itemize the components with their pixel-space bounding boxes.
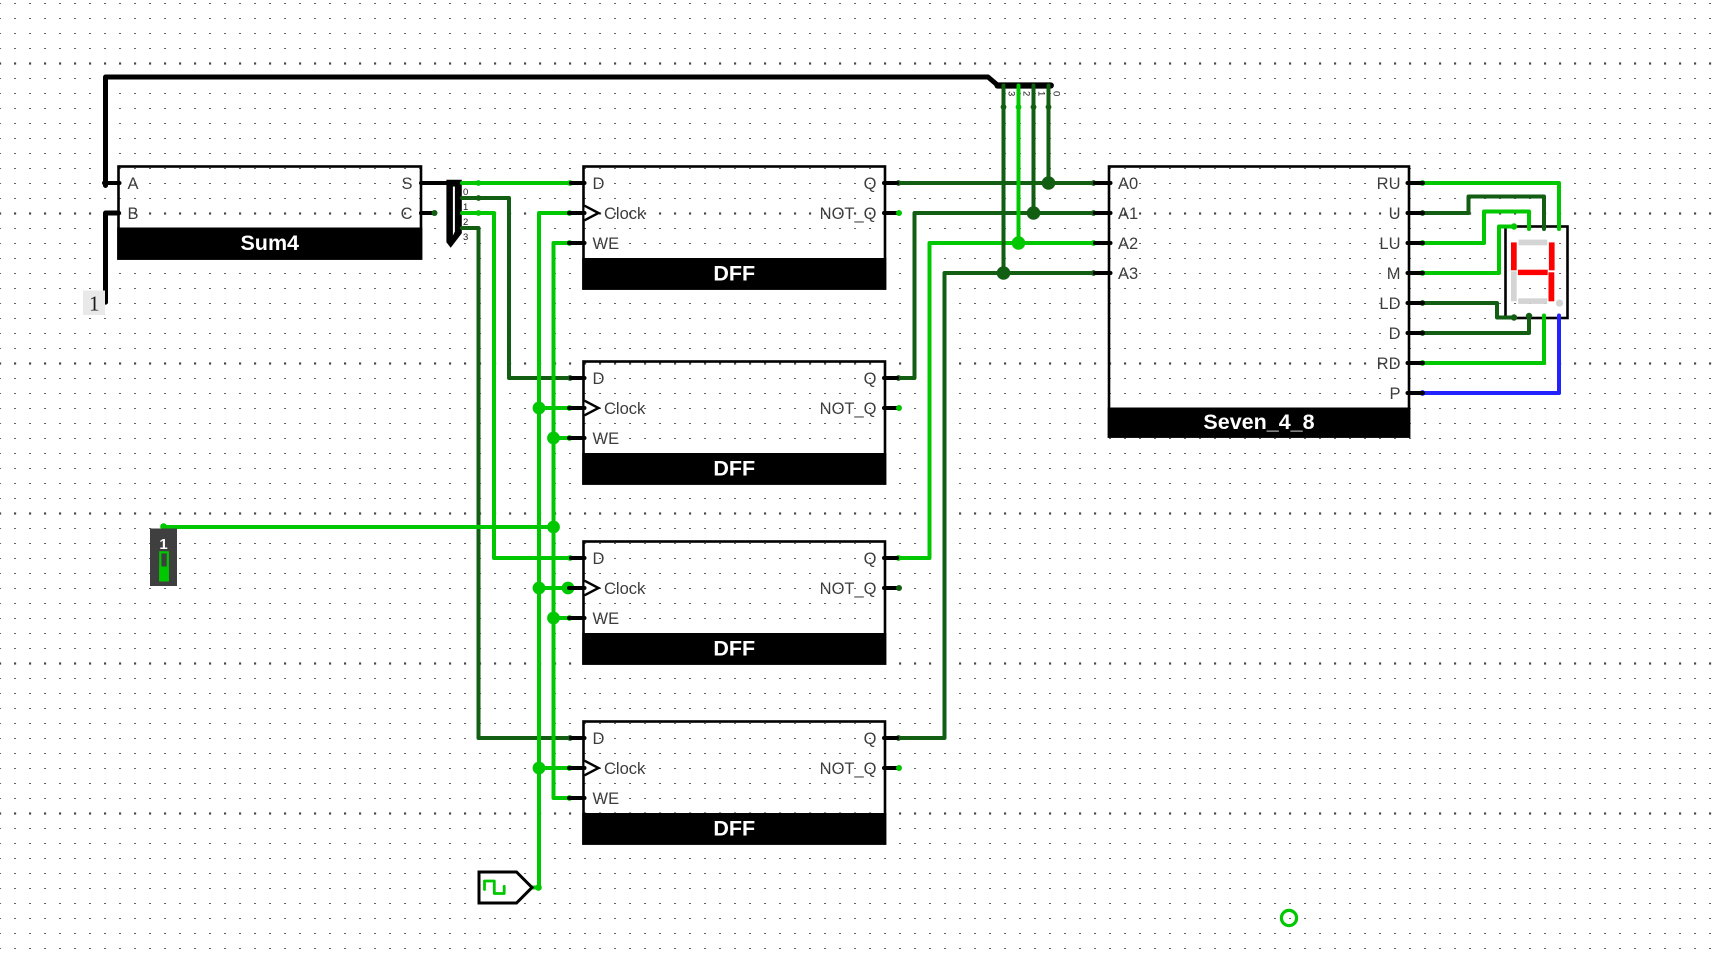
- svg-text:Q: Q: [864, 175, 877, 193]
- svg-text:DFF: DFF: [713, 816, 755, 840]
- wire WE branch DFF3: [554, 616, 570, 620]
- wire DFF3 Q cap: [896, 555, 902, 561]
- svg-text:A3: A3: [1118, 265, 1138, 283]
- wire Seven U to display top pin3: [1423, 197, 1544, 230]
- wire SP1 bit3 to DFF4 D: [462, 228, 571, 738]
- clock source CLK: [479, 872, 532, 903]
- wire DFF2 Q cap: [896, 375, 902, 381]
- bus wire Sum4 S output to splitter SP1: [421, 181, 448, 185]
- junction A1 node: [1027, 206, 1041, 220]
- wire DFF1 WE end cap: [567, 240, 573, 246]
- wire DFF1 Clock end cap: [567, 210, 573, 216]
- wire M cap: [1420, 270, 1426, 276]
- wire U cap: [1420, 210, 1426, 216]
- wire A3 end cap: [1091, 270, 1097, 276]
- pin DFF2 clock triangle: [585, 401, 599, 416]
- wire SP1 bit2 joint cap: [476, 210, 482, 216]
- port stub DFF2 Clock: [569, 406, 585, 410]
- wire DFF2 WE end cap: [567, 435, 573, 441]
- bus wire stub Sum4 A input: [104, 181, 120, 185]
- pin DFF4 clock triangle: [585, 761, 599, 776]
- port stub Seven right y183: [1408, 181, 1424, 185]
- wire DFF2 Clock end cap: [567, 405, 573, 411]
- svg-text:1: 1: [89, 292, 100, 316]
- port stub DFF1 D: [571, 181, 585, 185]
- bus wire A (top feedback bus from splitter to Sum4 A): [106, 77, 999, 186]
- component DFF1: [582, 167, 886, 290]
- node DFF4 NOT_Q cap: [896, 765, 902, 771]
- wire DFF2 Q to Seven A1: [897, 213, 1095, 378]
- svg-text:WE: WE: [593, 235, 620, 253]
- svg-text:Q: Q: [864, 370, 877, 388]
- svg-text:Q: Q: [864, 730, 877, 748]
- wire DFF4 Q to Seven A3: [897, 273, 1095, 738]
- wire clock branch DFF2: [539, 406, 569, 410]
- svg-text:DFF: DFF: [713, 636, 755, 660]
- wire DFF2 D end cap: [567, 375, 573, 381]
- pin DFF1 clock triangle: [585, 206, 599, 221]
- wire Seven P to display bottom pin4: [1423, 316, 1559, 394]
- port stub DFF4 NOT_Q: [884, 766, 897, 770]
- wire SP2 bit0 drop: [1047, 86, 1051, 184]
- component DFF3: [582, 542, 886, 665]
- node DFF1 NOT_Q cap: [896, 210, 902, 216]
- svg-text:D: D: [593, 370, 605, 388]
- wire Seven M to display top pin1: [1423, 227, 1514, 274]
- node Sum4 C unconnected cap: [432, 210, 438, 216]
- svg-text:D: D: [593, 175, 605, 193]
- wire SP2 bit2 drop: [1017, 86, 1021, 244]
- splitter SP2 pin label 3: [1006, 91, 1017, 96]
- wire clock branch DFF3: [539, 586, 569, 590]
- wire LU cap: [1420, 240, 1426, 246]
- wire WE branch DFF2: [554, 436, 570, 440]
- segment DP (decimal point, off): [1556, 300, 1563, 307]
- port stub DFF1 Q: [884, 181, 897, 185]
- port stub DFF4 Q: [884, 736, 897, 740]
- wire DFF3 WE end cap: [567, 615, 573, 621]
- svg-text:A2: A2: [1118, 235, 1138, 253]
- wire DFF3 Q to Seven A2: [897, 243, 1095, 558]
- svg-text:Seven_4_8: Seven_4_8: [1203, 410, 1314, 434]
- splitter SP2 pin label 0: [1051, 91, 1062, 96]
- wire DFF1 Q to Seven A0: [897, 181, 1095, 185]
- svg-text:C: C: [401, 205, 413, 223]
- wire DFF1 Q cap: [896, 180, 902, 186]
- splitter SP1 pin label 0: [463, 187, 468, 198]
- junction A3 node: [997, 266, 1011, 280]
- junction clock branch DFF3 end: [562, 582, 575, 595]
- wire SP2 bit2 joint cap: [1016, 104, 1022, 110]
- svg-text:NOT_Q: NOT_Q: [820, 580, 877, 598]
- port stub Seven right y393: [1408, 391, 1424, 395]
- splitter SP1 pin label 1: [463, 202, 468, 213]
- svg-text:WE: WE: [593, 430, 620, 448]
- wire SP1 bit2 to DFF3 D: [462, 213, 571, 558]
- port stub Seven right y303: [1408, 301, 1424, 305]
- port stub DFF1 WE: [569, 241, 585, 245]
- port stub DFF2 D: [571, 376, 585, 380]
- wire DFF4 D end cap: [567, 735, 573, 741]
- port stub DFF4 Clock: [569, 766, 585, 770]
- wire SP2 bit3 drop: [1002, 86, 1006, 274]
- label DFF4 Clock: [604, 760, 646, 778]
- label DFF3 Clock: [604, 580, 646, 598]
- constant 1 value label: [83, 291, 105, 316]
- component Seven_4_8: [1108, 167, 1411, 438]
- bus wire Sum4 B input to constant: [106, 213, 119, 302]
- svg-text:0: 0: [1051, 91, 1062, 96]
- svg-text:DFF: DFF: [713, 261, 755, 285]
- wire Seven RD to display bottom pin3: [1423, 316, 1544, 364]
- wire clock source cap: [535, 884, 542, 891]
- svg-text:2: 2: [1021, 91, 1032, 96]
- component DFF4: [582, 722, 886, 845]
- wire Seven D to display bottom pin2: [1423, 316, 1529, 334]
- svg-text:WE: WE: [593, 790, 620, 808]
- svg-text:WE: WE: [593, 610, 620, 628]
- node DFF2 NOT_Q cap: [896, 405, 902, 411]
- svg-text:LU: LU: [1379, 235, 1400, 253]
- component DFF2: [582, 362, 886, 485]
- svg-text:1: 1: [159, 536, 167, 553]
- port stub Seven A1: [1095, 211, 1111, 215]
- wire input switch to WE net: [164, 525, 554, 529]
- wire P cap: [1420, 390, 1426, 396]
- label DFF2 Clock: [604, 400, 646, 418]
- splitter SP1 pin label 2: [463, 217, 468, 228]
- port stub DFF3 D: [571, 556, 585, 560]
- svg-text:Clock: Clock: [604, 400, 646, 418]
- segment D (bottom, off): [1518, 298, 1547, 304]
- svg-text:M: M: [1387, 265, 1401, 283]
- node B constant wire end: [103, 299, 108, 304]
- wire DFF1 D end cap: [567, 180, 573, 186]
- port stub Seven A0: [1095, 181, 1111, 185]
- wire A1 end cap: [1091, 210, 1097, 216]
- junction WE net at DFF3: [547, 612, 560, 625]
- splitter SP1 (bus to bits): [446, 180, 461, 248]
- junction WE net at switch wire: [547, 521, 560, 534]
- segment G (middle, on): [1518, 270, 1548, 275]
- junction A2 node: [1012, 236, 1026, 250]
- component 7-segment display body: [1506, 227, 1568, 319]
- input switch IN1 (value 1): [150, 529, 177, 587]
- wire SP2 bit1 drop: [1032, 86, 1036, 214]
- wire SP1 bit1 joint cap: [476, 195, 482, 201]
- junction clock net at DFF3: [533, 582, 546, 595]
- wire clock net trunk: [532, 213, 569, 888]
- svg-text:B: B: [128, 205, 139, 223]
- segment E (bottom-left, off): [1511, 271, 1517, 301]
- wire Seven LU to display top pin2: [1423, 212, 1529, 244]
- junction clock net at DFF2: [533, 402, 546, 415]
- svg-text:Q: Q: [864, 550, 877, 568]
- junction A0 node: [1042, 176, 1056, 190]
- segment C (bottom-right, on): [1549, 272, 1555, 301]
- port stub DFF3 NOT_Q: [884, 586, 897, 590]
- svg-text:Clock: Clock: [604, 580, 646, 598]
- svg-text:P: P: [1389, 385, 1400, 403]
- svg-text:RU: RU: [1377, 175, 1401, 193]
- port stub Seven right y333: [1408, 331, 1424, 335]
- svg-text:Clock: Clock: [604, 760, 646, 778]
- wire switch output cap: [160, 523, 167, 530]
- port stub DFF2 NOT_Q: [884, 406, 897, 410]
- splitter SP2 pin label 1: [1036, 91, 1047, 96]
- wire SP2 bit1 joint cap: [1031, 104, 1037, 110]
- port stub DFF3 WE: [569, 616, 585, 620]
- port stub DFF4 WE: [569, 796, 585, 800]
- port stub Seven A2: [1095, 241, 1111, 245]
- wire display bottom pin1 cap: [1511, 314, 1517, 320]
- port stub Seven right y273: [1408, 271, 1424, 275]
- segment B (top-right, on): [1549, 242, 1555, 270]
- component Sum4: [117, 167, 422, 260]
- wire DFF3 D end cap: [567, 555, 573, 561]
- wire A0 end cap: [1091, 180, 1097, 186]
- svg-text:DFF: DFF: [713, 456, 755, 480]
- svg-text:NOT_Q: NOT_Q: [820, 400, 877, 418]
- label DFF1 Clock: [604, 205, 646, 223]
- svg-text:U: U: [1389, 205, 1401, 223]
- port stub DFF3 Q: [884, 556, 897, 560]
- wire A2 end cap: [1091, 240, 1097, 246]
- segment F (top-left, on): [1511, 242, 1517, 270]
- port stub DFF1 Clock: [569, 211, 585, 215]
- wire RU cap: [1420, 180, 1426, 186]
- svg-text:Sum4: Sum4: [240, 231, 299, 255]
- wire DFF4 Q cap: [896, 735, 902, 741]
- svg-text:Clock: Clock: [604, 205, 646, 223]
- port stub DFF3 Clock: [569, 586, 585, 590]
- wire Seven RU to display top pin4: [1423, 183, 1559, 229]
- port stub DFF2 Q: [884, 376, 897, 380]
- svg-text:D: D: [593, 550, 605, 568]
- svg-text:D: D: [593, 730, 605, 748]
- splitter SP2 pin label 2: [1021, 91, 1032, 96]
- svg-text:D: D: [1389, 325, 1401, 343]
- status indicator ring: [1281, 910, 1296, 925]
- wire Seven LD to display bottom pin1: [1423, 303, 1514, 318]
- port stub Seven right y243: [1408, 241, 1424, 245]
- wire display bottom pin2 cap: [1526, 313, 1532, 319]
- port stub DFF4 D: [571, 736, 585, 740]
- wire LD cap: [1420, 300, 1426, 306]
- wire SP1 bit0 to DFF1 D: [462, 181, 571, 185]
- port stub Seven right y213: [1408, 211, 1424, 215]
- junction WE net at DFF2: [547, 432, 560, 445]
- port stub Seven right y363: [1408, 361, 1424, 365]
- junction clock net at DFF4: [533, 762, 546, 775]
- wire SP1 bit1 to DFF2 D: [462, 198, 571, 378]
- segment A (top, off): [1519, 240, 1548, 246]
- wire D cap: [1420, 330, 1426, 336]
- wire DFF4 Clock end cap: [567, 765, 573, 771]
- wire WE net trunk: [554, 243, 570, 798]
- pin DFF3 clock triangle: [585, 581, 599, 596]
- svg-text:S: S: [401, 175, 412, 193]
- svg-text:A0: A0: [1118, 175, 1138, 193]
- svg-text:1: 1: [1036, 91, 1047, 96]
- wire RD cap: [1420, 360, 1426, 366]
- splitter SP1 pin label 3: [463, 232, 468, 243]
- wire clock branch DFF4: [539, 766, 569, 770]
- port stub Seven A3: [1095, 271, 1111, 275]
- port stub DFF2 WE: [569, 436, 585, 440]
- wire SP2 bit3 joint cap: [1001, 104, 1007, 110]
- port stub DFF1 NOT_Q: [884, 211, 897, 215]
- svg-text:RD: RD: [1377, 355, 1401, 373]
- wire SP2 bit0 joint cap: [1046, 104, 1052, 110]
- wire SP1 bit0 joint cap: [476, 180, 482, 186]
- wire display top pin1 cap: [1511, 223, 1517, 229]
- splitter SP2 spine (bits to bus, top): [998, 82, 1051, 88]
- svg-text:LD: LD: [1379, 295, 1400, 313]
- node DFF3 NOT_Q cap: [896, 585, 902, 591]
- svg-text:A: A: [128, 175, 139, 193]
- wire DFF4 WE end cap: [567, 795, 573, 801]
- svg-text:NOT_Q: NOT_Q: [820, 205, 877, 223]
- svg-text:3: 3: [1006, 91, 1017, 96]
- svg-text:3: 3: [463, 232, 468, 243]
- svg-text:A1: A1: [1118, 205, 1138, 223]
- port stub Sum4 C output: [421, 211, 433, 215]
- svg-text:NOT_Q: NOT_Q: [820, 760, 877, 778]
